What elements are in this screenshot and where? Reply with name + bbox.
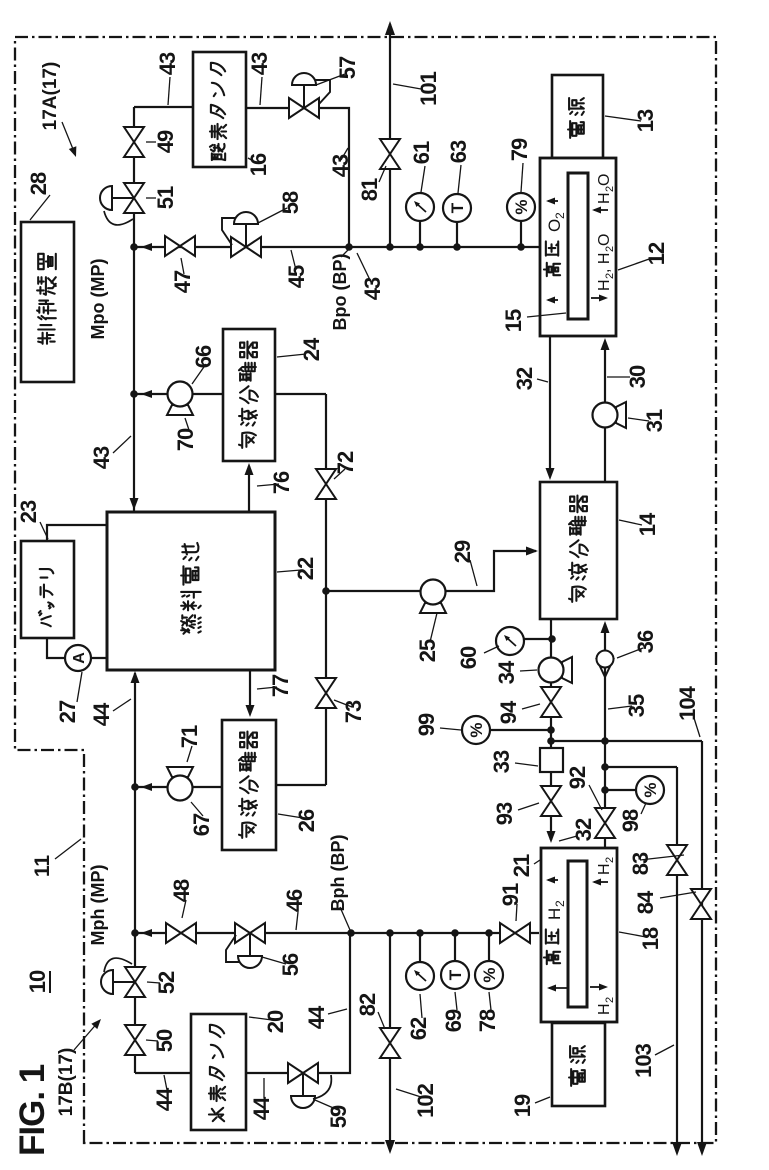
wire purge line 102	[389, 933, 391, 1150]
label H2O up arrow in box 12	[594, 209, 608, 211]
wire H2 return line 77	[249, 670, 251, 713]
svg-text:56: 56	[278, 953, 303, 976]
svg-text:43: 43	[360, 277, 385, 300]
wire drain line from separator 24 with valves 72,73 to separator 26	[274, 394, 326, 785]
concentration sensor 78	[475, 961, 503, 989]
label long up arrow in box 21	[549, 987, 568, 989]
svg-text:, H: , H	[596, 253, 613, 273]
wire sensor stem 98	[605, 789, 637, 791]
battery box 23	[21, 541, 74, 638]
svg-text:91: 91	[498, 883, 523, 906]
svg-text:83: 83	[628, 852, 653, 875]
svg-text:O: O	[596, 234, 613, 246]
svg-text:32: 32	[512, 367, 537, 390]
svg-text:%: %	[467, 722, 486, 737]
pump 25 (water)	[420, 603, 446, 613]
svg-text:44: 44	[249, 1096, 274, 1120]
svg-text:18: 18	[638, 927, 663, 950]
wire purge line 101	[389, 24, 391, 247]
pump 34 (water drain)	[562, 657, 572, 683]
svg-text:72: 72	[333, 451, 358, 474]
svg-text:2: 2	[604, 857, 616, 863]
svg-text:T: T	[446, 969, 465, 980]
svg-text:H: H	[596, 863, 613, 875]
valve 82	[380, 1028, 400, 1058]
svg-text:103: 103	[631, 1043, 656, 1077]
wire sensor stem 61	[419, 220, 421, 247]
motor valve 58	[231, 237, 261, 257]
control device box 28	[21, 222, 74, 382]
svg-text:%: %	[512, 199, 531, 214]
svg-text:69: 69	[441, 1009, 466, 1032]
svg-text:94: 94	[496, 700, 521, 724]
svg-text:67: 67	[189, 813, 214, 836]
concentration sensor 98	[636, 776, 664, 804]
motor valve 51	[124, 183, 144, 213]
svg-text:71: 71	[177, 725, 202, 748]
svg-text:99: 99	[414, 713, 439, 736]
label up arrow right in box 21	[548, 879, 558, 881]
ion filter box 33	[540, 748, 563, 772]
concentration sensor 79	[507, 193, 535, 221]
arrow line 102 out	[385, 1140, 395, 1154]
label H2 H2O down arrow in box 12	[591, 297, 605, 299]
svg-text:12: 12	[644, 242, 669, 265]
svg-text:%: %	[480, 967, 499, 982]
svg-text:48: 48	[169, 879, 194, 902]
label O2 up arrow left in box 12	[548, 299, 558, 301]
node junction	[131, 929, 139, 937]
svg-text:32: 32	[571, 818, 596, 841]
valve 93	[541, 786, 561, 816]
svg-text:28: 28	[26, 172, 51, 195]
svg-text:33: 33	[489, 750, 514, 773]
svg-text:2: 2	[604, 997, 616, 1003]
pump 66/70 (O2 circulation)	[167, 405, 193, 415]
svg-text:43: 43	[155, 52, 180, 75]
svg-text:35: 35	[624, 694, 649, 717]
svg-text:Bph (BP): Bph (BP)	[328, 835, 348, 912]
wire H2 supply line 44 (tank to fuel cell)	[134, 673, 136, 1073]
svg-text:O: O	[545, 219, 564, 232]
arrow line 32 into separator 14	[546, 468, 555, 480]
svg-text:O: O	[596, 174, 613, 186]
svg-text:102: 102	[413, 1083, 438, 1117]
arrow line 29 into separator 14	[526, 547, 538, 556]
node junction	[601, 763, 609, 771]
node junction	[547, 737, 555, 745]
wire battery positive lead	[47, 525, 107, 541]
svg-text:H: H	[596, 1003, 613, 1015]
power supply box 13	[552, 75, 603, 158]
node junction	[453, 243, 461, 251]
svg-text:46: 46	[282, 889, 307, 912]
svg-text:45: 45	[284, 265, 309, 288]
node junction	[517, 243, 525, 251]
svg-text:%: %	[641, 782, 660, 797]
valve 92	[595, 808, 615, 838]
check valve 36	[596, 658, 614, 677]
node junction	[131, 783, 139, 791]
hydrogen tank box 20	[191, 1014, 246, 1130]
svg-text:24: 24	[299, 337, 324, 361]
svg-text:62: 62	[406, 1017, 431, 1040]
arrow line 103 out	[672, 1142, 682, 1156]
arrow line 32 into electrolyzer 21	[547, 831, 556, 843]
svg-text:21: 21	[509, 854, 534, 877]
svg-text:17B(17): 17B(17)	[56, 1048, 77, 1117]
temperature sensor 69	[441, 961, 469, 989]
motor valve 57	[289, 98, 319, 118]
svg-text:84: 84	[633, 890, 658, 914]
svg-text:104: 104	[675, 685, 700, 720]
svg-text:16: 16	[246, 153, 271, 176]
motor valve 52	[125, 967, 145, 997]
svg-text:76: 76	[269, 471, 294, 494]
node junction	[322, 587, 330, 595]
arrow O2 bus up	[141, 243, 152, 251]
node junction	[347, 929, 355, 937]
svg-text:79: 79	[507, 138, 532, 161]
arrow O2 into fuel cell	[130, 498, 139, 510]
node junction	[601, 737, 609, 745]
label high-pressure O2 text in box 12	[544, 263, 560, 276]
svg-text:59: 59	[326, 1105, 351, 1128]
svg-text:25: 25	[415, 639, 440, 662]
node junction	[451, 929, 459, 937]
svg-text:44: 44	[304, 1005, 329, 1029]
wire branch to drain 103	[605, 766, 677, 768]
wire O2 bus line (Bpo)	[134, 246, 540, 248]
svg-text:93: 93	[492, 802, 517, 825]
wire O2 water line 32	[549, 336, 551, 473]
svg-text:44: 44	[89, 702, 114, 726]
gas-liquid separator box 24	[223, 329, 275, 461]
wire sensor stem 99	[490, 729, 551, 731]
ammeter 27	[65, 645, 91, 671]
valve 73	[316, 678, 336, 708]
power supply box 19	[552, 1023, 605, 1106]
wire O2 pump branch 66	[134, 393, 223, 395]
wire sensor stem 69	[454, 933, 456, 961]
valve 83	[667, 845, 687, 875]
svg-text:43: 43	[328, 154, 353, 177]
label H2 up arrow in box 21	[594, 881, 608, 883]
motor valve 56	[235, 923, 265, 943]
arrow into separator 26	[246, 705, 255, 717]
node junction	[130, 243, 138, 251]
svg-text:47: 47	[170, 270, 195, 293]
wire water feed line 29	[326, 551, 536, 591]
svg-text:27: 27	[55, 700, 80, 723]
valve 81	[380, 139, 400, 169]
svg-text:98: 98	[618, 809, 643, 832]
wire sensor stem 78	[488, 933, 490, 961]
node junction	[345, 243, 353, 251]
pump 67/71 (H2 circulation)	[167, 767, 193, 777]
gas-liquid separator box 26	[222, 720, 276, 850]
valve 50	[125, 1025, 145, 1055]
wire H2 gas line 35/92	[604, 624, 606, 848]
fuel cell box 22	[107, 512, 275, 670]
arrow line 104 out	[697, 1142, 707, 1156]
svg-text:66: 66	[191, 345, 216, 368]
wire H2 tank bottom branch 44	[246, 933, 350, 1073]
node junction	[547, 726, 555, 734]
label O2 up arrow right in box 12	[548, 200, 558, 202]
wire cross line x429	[551, 740, 702, 742]
svg-text:26: 26	[294, 809, 319, 832]
svg-text:51: 51	[153, 186, 178, 209]
node junction	[130, 390, 138, 398]
svg-text:92: 92	[565, 766, 590, 789]
valve 49	[124, 127, 144, 157]
wire drain line 103	[676, 767, 678, 1152]
node junction	[386, 243, 394, 251]
wire sensor stem 60	[524, 638, 552, 640]
wire H2 water line 32 (box33 to separator 14)	[550, 619, 552, 840]
svg-text:FIG. 1: FIG. 1	[13, 1064, 52, 1156]
label high-pressure H2 text in box 21	[544, 951, 560, 964]
electrolyzer box 12	[540, 158, 616, 336]
svg-text:2: 2	[553, 212, 567, 219]
arrow into separator 24	[245, 463, 254, 475]
valve 48	[166, 923, 196, 943]
svg-text:11: 11	[31, 855, 54, 878]
arrow line 30 into electrolyzer 12	[601, 338, 610, 350]
svg-text:34: 34	[494, 660, 519, 684]
valve 94	[541, 687, 561, 717]
svg-text:15: 15	[501, 309, 526, 332]
wire O2 tank bottom branch 43	[246, 108, 349, 247]
wire sensor stem 79	[520, 220, 522, 247]
arrow H2 into fuel cell	[131, 671, 140, 683]
svg-text:A: A	[71, 652, 88, 664]
svg-text:49: 49	[153, 130, 178, 153]
arrow line 35 into separator 14	[601, 621, 610, 633]
wire sensor stem 62	[419, 933, 421, 962]
svg-text:63: 63	[446, 140, 471, 163]
arrow O2 pump up	[141, 390, 152, 398]
svg-text:2: 2	[553, 900, 567, 907]
svg-text:H: H	[596, 279, 613, 291]
pressure sensor 61	[406, 193, 434, 221]
svg-text:77: 77	[268, 674, 293, 697]
svg-text:Mph (MP): Mph (MP)	[88, 865, 108, 946]
valve 91	[500, 923, 530, 943]
node junction	[601, 786, 609, 794]
svg-text:44: 44	[152, 1087, 177, 1111]
svg-text:T: T	[448, 202, 467, 213]
valve 47	[165, 236, 195, 256]
svg-text:Bpo (BP): Bpo (BP)	[330, 254, 350, 331]
node junction	[416, 243, 424, 251]
wire drain line 104	[701, 741, 703, 1152]
svg-text:81: 81	[357, 178, 382, 201]
svg-text:20: 20	[263, 1010, 288, 1033]
svg-text:Mpo (MP): Mpo (MP)	[88, 259, 108, 340]
svg-text:23: 23	[16, 500, 41, 523]
node junction	[485, 929, 493, 937]
oxygen tank box 16	[193, 52, 246, 167]
node junction	[386, 929, 394, 937]
svg-text:70: 70	[173, 428, 198, 451]
node junction	[548, 635, 556, 643]
electrolyzer box 21	[541, 848, 617, 1022]
svg-text:60: 60	[456, 646, 481, 669]
wire H2 tank top branch	[135, 1072, 191, 1074]
svg-text:43: 43	[247, 52, 272, 75]
wire O2 gas line 30	[604, 342, 606, 482]
wire battery negative lead with ammeter 27	[47, 638, 107, 658]
wire sensor stem 63	[456, 221, 458, 247]
svg-text:61: 61	[409, 141, 434, 164]
valve 84	[691, 889, 711, 919]
svg-text:17A(17): 17A(17)	[40, 62, 61, 131]
svg-text:43: 43	[89, 446, 114, 469]
svg-text:82: 82	[355, 993, 380, 1016]
motor valve 59	[288, 1063, 318, 1083]
electrode assembly in box 21	[568, 861, 587, 1007]
arrow H2 bus up	[141, 929, 152, 937]
svg-text:78: 78	[475, 1009, 500, 1032]
node junction	[416, 929, 424, 937]
temperature sensor 63	[443, 194, 471, 222]
valve 72	[316, 469, 336, 499]
svg-text:29: 29	[450, 540, 475, 563]
svg-text:19: 19	[510, 1094, 535, 1117]
wire O2 tank top branch	[134, 106, 193, 108]
svg-text:H: H	[596, 192, 613, 204]
concentration sensor 99	[462, 716, 490, 744]
wire H2 bus line (Bph)	[135, 932, 539, 934]
arrow H2 pump up	[141, 783, 152, 791]
svg-text:H: H	[545, 908, 564, 920]
wire H2 pump branch 67	[135, 786, 222, 788]
gas-liquid separator box 14	[540, 482, 617, 619]
svg-text:22: 22	[293, 557, 318, 580]
svg-text:10: 10	[25, 970, 50, 993]
wire O2 return line 76	[248, 466, 250, 511]
arrow line 101 out	[385, 21, 395, 35]
pressure sensor 62	[406, 962, 434, 990]
wire O2 supply line 43 (fuel cell to tank)	[133, 107, 135, 511]
pump 31 (O2 gas)	[616, 402, 626, 428]
electrode assembly 15 in box 12	[568, 173, 588, 319]
pressure sensor 60	[496, 627, 524, 655]
